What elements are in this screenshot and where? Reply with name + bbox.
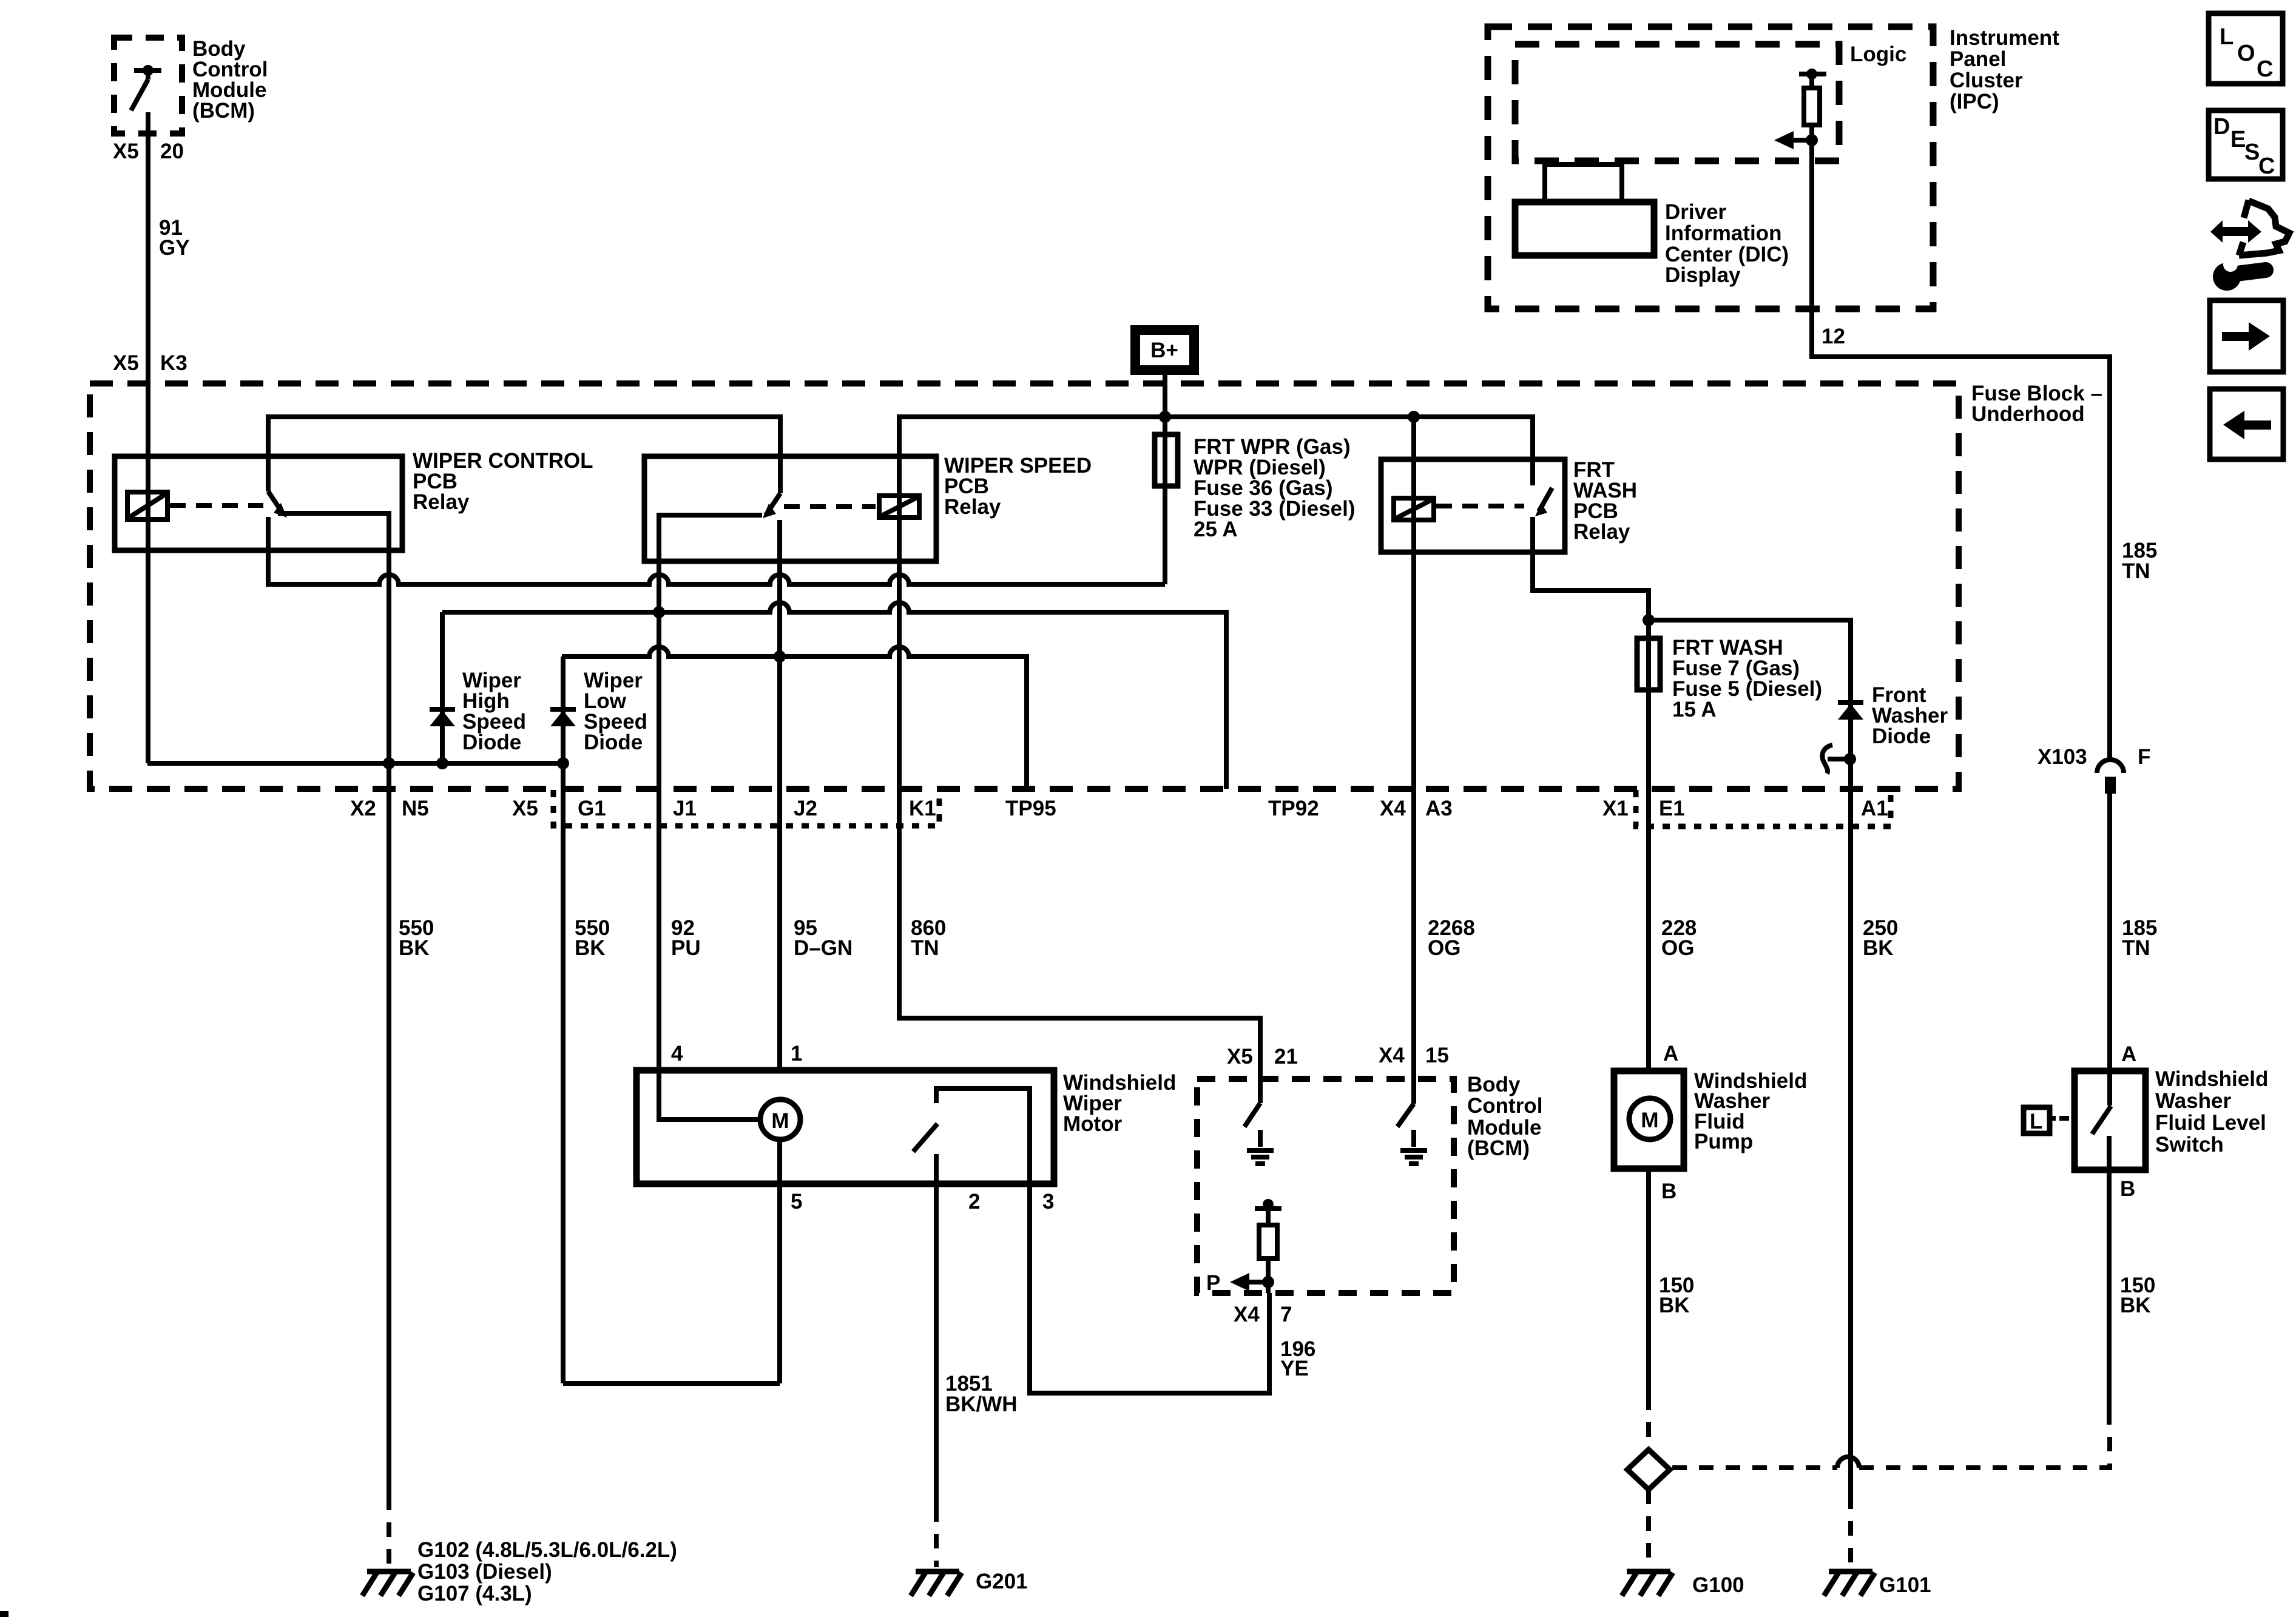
level switch blade: [2092, 1071, 2111, 1170]
label FRT WPR fuse text: [1194, 435, 1356, 541]
connector label X5 21: [1227, 1045, 1298, 1068]
wire branch to front washer diode: [1649, 620, 1851, 1494]
svg-text:3: 3: [1042, 1190, 1054, 1214]
value label 92 PU: [671, 916, 701, 960]
svg-text:G102 (4.8L/5.3L/6.0L/6.2L): G102 (4.8L/5.3L/6.0L/6.2L): [417, 1538, 677, 1562]
label Windshield Washer Fluid Pump: [1694, 1069, 1807, 1153]
svg-text:TN: TN: [2122, 559, 2150, 583]
label Logic: [1850, 42, 1906, 66]
svg-text:E1: E1: [1659, 797, 1685, 820]
wire dashed splice to G100: [1646, 1490, 1651, 1567]
module BCM top (Body Control Module) dashed box: [114, 38, 182, 133]
svg-text:A: A: [2121, 1042, 2136, 1066]
svg-text:C: C: [2258, 154, 2275, 179]
icon arrow left box: [2210, 389, 2283, 459]
svg-text:G100: G100: [1692, 1573, 1744, 1597]
wire J2 95 D-GN column: [777, 520, 782, 1070]
pin 1 label: [791, 1042, 802, 1065]
connector X1 dotted box: [1636, 790, 1891, 826]
svg-text:N5: N5: [402, 797, 429, 820]
svg-text:21: 21: [1274, 1045, 1298, 1068]
svg-text:Fluid Level: Fluid Level: [2155, 1111, 2266, 1135]
svg-text:Diode: Diode: [584, 731, 643, 754]
resistor in IPC: [1799, 69, 1826, 309]
icon DESC box: [2209, 110, 2283, 179]
svg-text:B: B: [2120, 1177, 2135, 1201]
svg-text:A1: A1: [1861, 797, 1888, 820]
wire diode1 branch: [440, 612, 445, 763]
pin 5 label: [791, 1190, 802, 1214]
svg-text:5: 5: [791, 1190, 802, 1214]
coil of wiper control relay: [127, 492, 167, 519]
wire bus segment left (feeds wiper relay pivots): [268, 417, 780, 493]
wire dashed pump to splice diamond: [1646, 1396, 1651, 1448]
value label 860 TN: [911, 916, 946, 960]
connector row labels X1 E1: [1602, 797, 1685, 820]
svg-text:X4: X4: [1380, 797, 1406, 820]
icon LOC box: [2209, 13, 2283, 84]
label Windshield Wiper Motor: [1063, 1071, 1176, 1136]
svg-text:B: B: [1661, 1180, 1676, 1203]
svg-text:Relay: Relay: [944, 495, 1001, 519]
pump motor M symbol: [1629, 1098, 1670, 1139]
node junction N5 line-4: [383, 757, 395, 769]
ground internal BCM 2: [1400, 1150, 1427, 1164]
B+ power symbol: [1135, 330, 1194, 370]
label FRT WASH PCB Relay: [1573, 458, 1637, 544]
wire N5 550 BK column: [387, 513, 391, 1496]
label G102 G103 G107: [417, 1538, 677, 1605]
svg-text:G201: G201: [976, 1570, 1028, 1593]
wire pump B 150 BK: [1646, 1169, 1651, 1396]
connector row label A1: [1861, 797, 1888, 820]
value label 185 TN upper: [2122, 539, 2157, 583]
pin A label pump: [1663, 1042, 1678, 1065]
wire ground lead G201 dashed: [934, 1507, 939, 1567]
DIC connection frame: [1545, 164, 1622, 202]
node junction diode2 line-4: [557, 757, 569, 769]
node junction diode1 line-4: [436, 757, 448, 769]
svg-text:BK/WH: BK/WH: [945, 1393, 1018, 1416]
svg-text:PU: PU: [671, 936, 701, 960]
svg-text:25 A: 25 A: [1194, 518, 1238, 541]
svg-text:Diode: Diode: [462, 731, 521, 754]
svg-text:BK: BK: [1659, 1294, 1690, 1317]
svg-text:Logic: Logic: [1850, 42, 1906, 66]
svg-text:X5: X5: [1227, 1045, 1253, 1068]
motor Windshield Wiper Motor box: [636, 1070, 1054, 1184]
svg-text:B+: B+: [1150, 339, 1178, 362]
icon arrow right box: [2210, 300, 2283, 372]
park switch contact frame in motor: [936, 1089, 1030, 1184]
svg-text:M: M: [1641, 1109, 1658, 1132]
switch BCM wiper input 2: [1397, 1104, 1414, 1147]
dashed actuator link wiper speed: [784, 504, 876, 509]
svg-text:OG: OG: [1661, 936, 1694, 960]
wire K1 860 TN column: [899, 491, 1260, 1079]
arrow IPC logic output: [1774, 131, 1812, 149]
label Front Washer Diode: [1872, 683, 1948, 748]
wire pin 2 feed: [934, 1154, 939, 1507]
connector X103 F inline: [2038, 745, 2150, 794]
value label 550 BK (N5): [399, 916, 434, 960]
value label 196 YE: [1280, 1337, 1315, 1380]
value label 91 GY: [159, 216, 190, 260]
wire net J1 TP92 (line-2 with hops): [442, 603, 1226, 789]
svg-text:Driver: Driver: [1665, 200, 1727, 224]
svg-text:A3: A3: [1425, 797, 1453, 820]
label Instrument Panel Cluster (IPC): [1950, 26, 2059, 113]
svg-text:C: C: [2257, 56, 2273, 82]
dashed link L to switch: [2059, 1116, 2075, 1121]
wire ground lead G102 dashed: [387, 1496, 391, 1567]
svg-text:X5: X5: [113, 351, 139, 375]
switch blade wiper speed relay: [763, 493, 780, 518]
ground internal BCM 1: [1247, 1150, 1274, 1164]
node junction fuse7 top: [1643, 614, 1655, 626]
svg-text:YE: YE: [1280, 1357, 1309, 1380]
svg-text:L: L: [2030, 1110, 2042, 1133]
svg-text:1: 1: [791, 1042, 802, 1065]
pin A label level switch: [2121, 1042, 2136, 1066]
wire 91 GY from BCM X5-20 down to fuse block X5-K3: [146, 112, 150, 763]
svg-text:G103 (Diesel): G103 (Diesel): [417, 1560, 552, 1584]
label Windshield Washer Fluid Level Switch: [2155, 1067, 2268, 1156]
wire J1 to motor M: [659, 1070, 760, 1119]
svg-text:O: O: [2237, 41, 2255, 66]
node junction J2 line-3: [774, 650, 786, 663]
svg-text:2: 2: [968, 1190, 980, 1214]
connector row label J1: [673, 797, 697, 820]
svg-text:M: M: [771, 1109, 789, 1133]
resistor sender in BCM: [1255, 1199, 1281, 1293]
switch blade FRT WASH relay: [1535, 488, 1552, 516]
svg-text:Pump: Pump: [1694, 1130, 1753, 1153]
motor M symbol: [760, 1099, 800, 1139]
svg-text:D–GN: D–GN: [794, 936, 853, 960]
dashed actuator link FRT WASH: [1436, 504, 1524, 508]
fuse FRT WASH 15A symbol: [1637, 638, 1660, 690]
fuse block underhood dashed box: [90, 383, 1959, 789]
wire 185 TN to fluid level switch: [2107, 794, 2112, 1071]
dashed actuator link wiper control: [170, 503, 263, 508]
svg-text:15 A: 15 A: [1672, 698, 1717, 721]
wire net G1 J2 TP95 (line-3 with hops): [562, 647, 1027, 789]
svg-text:J2: J2: [794, 797, 817, 820]
icon service wrench: [2210, 200, 2289, 291]
label Driver Information Center (DIC) Display: [1665, 200, 1789, 287]
label WIPER SPEED PCB Relay: [944, 454, 1092, 519]
wire fuse 36 output down: [1163, 486, 1167, 584]
wire FRT WASH relay output to fuse 7: [1533, 517, 1649, 641]
diode Front Washer: [1838, 703, 1863, 720]
coil of FRT WASH relay: [1394, 498, 1434, 520]
svg-text:TN: TN: [2122, 936, 2150, 960]
wire pin 3 to BCM X4-7: [1030, 1184, 1269, 1393]
svg-text:X1: X1: [1602, 797, 1629, 820]
value label 228 OG: [1661, 916, 1697, 960]
connector label X5 20: [113, 140, 184, 163]
splice diamond: [1627, 1450, 1670, 1490]
logic dashed box: [1515, 44, 1839, 161]
value label 185 TN lower: [2122, 916, 2157, 960]
node junction J1 line-2: [653, 606, 665, 618]
svg-text:TP92: TP92: [1268, 797, 1319, 820]
connector label X4 15: [1379, 1044, 1449, 1067]
svg-text:G101: G101: [1879, 1573, 1931, 1597]
svg-text:K1: K1: [909, 797, 936, 820]
wire dashed splice to level switch B (with hop over 250 BK): [1672, 1425, 2110, 1468]
ground G201: [911, 1570, 1028, 1596]
svg-text:F: F: [2138, 745, 2150, 769]
svg-text:Windshield: Windshield: [2155, 1067, 2268, 1091]
svg-text:D: D: [2213, 114, 2230, 140]
svg-text:A: A: [1663, 1042, 1678, 1065]
svg-text:Relay: Relay: [413, 490, 470, 514]
label WIPER CONTROL PCB Relay: [413, 449, 593, 514]
ground G101: [1824, 1571, 1931, 1597]
fuse FRT WPR 25A symbol: [1155, 417, 1178, 486]
connector label X5 K3: [113, 351, 187, 375]
wire IPC pin 12 to 185 TN: [1812, 309, 2110, 760]
svg-text:Washer: Washer: [2155, 1089, 2232, 1113]
ground G102: [362, 1571, 413, 1596]
node junction B+ bus: [1159, 411, 1171, 423]
svg-text:BK: BK: [575, 936, 606, 960]
label FRT WASH fuse text: [1672, 636, 1822, 721]
DIC display box: [1515, 202, 1654, 255]
terminal hook connector on 250 BK: [1822, 745, 1856, 774]
svg-text:L: L: [2220, 24, 2234, 50]
value label 250 BK: [1863, 916, 1898, 960]
switch BCM wiper input 1: [1244, 1079, 1260, 1147]
svg-text:X5: X5: [512, 797, 538, 820]
svg-text:E: E: [2230, 127, 2246, 152]
relay FRT WASH PCB outline: [1381, 459, 1565, 552]
value label 1851 BK/WH: [945, 1372, 1018, 1416]
park switch blade in motor: [913, 1124, 937, 1152]
value label 95 D-GN: [794, 916, 853, 960]
svg-text:BK: BK: [2120, 1294, 2151, 1317]
relay WIPER CONTROL PCB outline: [115, 456, 402, 550]
contact bar wiper control relay: [278, 513, 389, 550]
contact bar wiper speed relay: [659, 515, 762, 561]
svg-text:Cluster: Cluster: [1950, 69, 2023, 92]
wire B+ feed to bus: [1163, 375, 1167, 417]
svg-text:7: 7: [1280, 1303, 1292, 1326]
wire motor pin5 to G1 550 BK: [563, 1381, 780, 1386]
pump Windshield Washer Fluid Pump box: [1614, 1071, 1684, 1169]
value label 550 BK (G1): [575, 916, 610, 960]
svg-text:(IPC): (IPC): [1950, 90, 1999, 113]
label Wiper High Speed Diode: [462, 669, 526, 754]
svg-text:GY: GY: [159, 236, 190, 260]
diode Wiper High Speed: [430, 709, 455, 726]
svg-text:Control: Control: [1467, 1094, 1542, 1118]
node IPC arrow junction: [1806, 134, 1818, 146]
svg-text:(BCM): (BCM): [192, 99, 255, 123]
svg-text:X4: X4: [1379, 1044, 1405, 1067]
label 12: [1822, 325, 1845, 348]
label Wiper Low Speed Diode: [584, 669, 647, 754]
svg-text:Diode: Diode: [1872, 724, 1931, 748]
svg-text:Underhood: Underhood: [1971, 402, 2085, 426]
connector row label J2: [794, 797, 817, 820]
svg-text:BK: BK: [399, 936, 430, 960]
svg-text:12: 12: [1822, 325, 1845, 348]
connector X5 dotted box: [553, 790, 939, 826]
svg-text:P: P: [1206, 1271, 1220, 1295]
label Fuse Block - Underhood: [1971, 382, 2102, 426]
svg-text:K3: K3: [160, 351, 187, 375]
svg-text:15: 15: [1425, 1044, 1449, 1067]
value label 150 BK switch: [2120, 1274, 2155, 1317]
L sensor box: [2024, 1107, 2056, 1133]
pin 4 label: [671, 1042, 683, 1065]
switch blade wiper control relay: [268, 491, 287, 518]
svg-text:Motor: Motor: [1063, 1112, 1123, 1136]
svg-text:Body: Body: [1467, 1073, 1521, 1096]
connector row labels X4 A3: [1380, 797, 1453, 820]
value label 150 BK pump: [1659, 1274, 1694, 1317]
diode Wiper Low Speed: [550, 709, 576, 726]
svg-text:Display: Display: [1665, 263, 1741, 287]
node junction bus to FRT WASH coil: [1408, 411, 1420, 423]
pin 3 label: [1042, 1190, 1054, 1214]
wire motor to pin 5: [777, 1139, 782, 1383]
connector row label TP95: [1005, 797, 1056, 820]
wire ground collector line-4: [147, 761, 563, 766]
relay WIPER SPEED PCB outline: [644, 456, 936, 561]
svg-text:Panel: Panel: [1950, 47, 2006, 71]
wire level switch B 150 BK: [2107, 1170, 2112, 1425]
connector row labels X5 G1: [512, 797, 606, 820]
wire E1 228 OG column: [1646, 690, 1651, 1071]
svg-text:S: S: [2244, 140, 2260, 165]
wire G1 550 BK column upper: [561, 657, 566, 1383]
svg-text:X4: X4: [1234, 1303, 1260, 1326]
module IPC dashed box: [1488, 27, 1933, 309]
svg-text:Relay: Relay: [1573, 520, 1630, 544]
pin B label level switch: [2120, 1177, 2135, 1201]
svg-text:Instrument: Instrument: [1950, 26, 2059, 50]
svg-text:G107 (4.3L): G107 (4.3L): [417, 1582, 532, 1605]
svg-text:J1: J1: [673, 797, 697, 820]
svg-text:G1: G1: [578, 797, 606, 820]
svg-text:TN: TN: [911, 936, 939, 960]
svg-text:X2: X2: [350, 797, 376, 820]
svg-text:(BCM): (BCM): [1467, 1136, 1530, 1160]
connector row label TP92: [1268, 797, 1319, 820]
wire wiper control relay output to fuse (line-1 with hops): [268, 517, 1165, 584]
scan artifact dot bottom-left: [0, 1611, 8, 1617]
label Body Control Module (BCM) bottom: [1467, 1073, 1542, 1160]
switch Windshield Washer Fluid Level box: [2075, 1071, 2146, 1170]
svg-text:X103: X103: [2038, 745, 2087, 769]
svg-text:BK: BK: [1863, 936, 1894, 960]
wire J1 92 PU column: [657, 561, 661, 1070]
svg-text:Information: Information: [1665, 221, 1781, 245]
pin B label pump: [1661, 1180, 1676, 1203]
value label 2268 OG: [1428, 916, 1475, 960]
svg-text:Switch: Switch: [2155, 1133, 2224, 1156]
pin 2 label: [968, 1190, 980, 1214]
arrow P output: [1206, 1271, 1268, 1295]
connector row labels X2 N5: [350, 797, 429, 820]
svg-text:X5: X5: [113, 140, 139, 163]
connector row label K1: [909, 797, 936, 820]
coil of wiper speed relay: [879, 496, 919, 518]
module BCM bottom dashed box: [1197, 1079, 1454, 1293]
svg-text:OG: OG: [1428, 936, 1460, 960]
wire bus segment right (B+ distribution): [899, 417, 1533, 496]
wire 250 BK lower: [1848, 1468, 1853, 1567]
node P output junction: [1262, 1276, 1274, 1288]
svg-text:TP95: TP95: [1005, 797, 1056, 820]
switch inside BCM top: [131, 65, 161, 110]
connector label X4 7: [1234, 1303, 1292, 1326]
svg-text:20: 20: [160, 140, 184, 163]
label Body Control Module (BCM) top: [192, 37, 268, 123]
ground G100: [1622, 1571, 1744, 1597]
wire A3 2268 OG column: [1411, 417, 1416, 1104]
svg-text:4: 4: [671, 1042, 683, 1065]
